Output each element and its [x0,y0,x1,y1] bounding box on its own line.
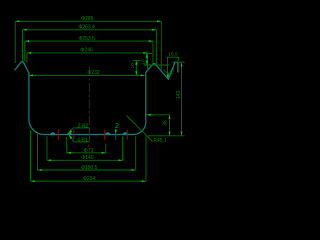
leader 4-R1 [69,135,74,142]
leader R45.1 [127,116,153,142]
bottom dim line &#934;190.5 [38,169,136,171]
svg-text:10: 10 [140,59,146,65]
dim 36 vertical [169,115,171,136]
svg-text:15.5: 15.5 [168,52,178,58]
svg-text:Φ73: Φ73 [84,148,94,154]
profile bump rib 1 [51,133,55,135]
dim 10 above flange peak [146,54,148,66]
svg-text:Φ234: Φ234 [83,176,96,182]
dim 10 left of flange [135,61,137,76]
dim line &#934;246 [27,52,148,54]
dim 15.5 [167,56,179,58]
red centerline tick 3 [88,128,90,142]
profile bump rib 4 [123,133,127,135]
dim 143 vertical [181,62,183,136]
profile bump rib 2 [68,133,72,135]
red centerline tick 4 [104,130,106,140]
svg-text:4-R1: 4-R1 [77,137,88,143]
bottom dim line &#934;73 [67,152,106,154]
red centerline dash below tick 3 [88,145,90,147]
red centerline tick 2 [73,130,75,140]
svg-text:143: 143 [176,91,182,100]
dim line &#934;253.6 [25,40,153,42]
svg-text:R45.1: R45.1 [153,138,167,144]
bottom dim line &#934;234 [31,180,147,182]
svg-text:36: 36 [162,120,168,126]
svg-text:Φ232: Φ232 [87,70,100,76]
dim line phi232 [29,74,145,76]
svg-text:Φ140: Φ140 [81,155,94,161]
svg-text:2: 2 [115,123,119,130]
svg-text:Φ246: Φ246 [80,48,93,54]
dim line &#934;263.4 [23,29,157,31]
svg-text:2-R2: 2-R2 [78,123,89,129]
svg-text:Φ253.6: Φ253.6 [78,36,95,42]
bottom dim line &#934;140 [47,159,123,161]
red centerline tick 1 [57,130,59,140]
red centerline tick 5 [126,130,128,140]
svg-text:Φ263.4: Φ263.4 [78,25,95,31]
dim line &#934;285 [15,20,161,22]
svg-text:Φ285: Φ285 [81,16,94,22]
red vertical centerline axis [88,67,90,128]
part profile outline (teal polyline) [15,62,178,135]
profile bump rib 3 [106,133,110,135]
groove angle annotation 45 deg [164,70,173,74]
leader 2-R2 [68,128,73,134]
svg-text:Φ190.5: Φ190.5 [81,165,98,171]
leader 2 (rib height) [115,129,117,140]
svg-text:10: 10 [130,63,136,69]
